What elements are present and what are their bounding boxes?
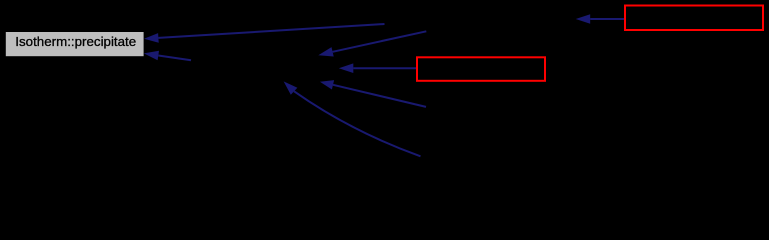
edge 7: horizontal arrow from top-right red box into upper-right node [576, 14, 625, 24]
edge 1: long arrow from upper-right node into Isotherm::precipitate [144, 24, 385, 43]
svg-text:Isotherm::precipitate: Isotherm::precipitate [15, 34, 136, 49]
edge 3: arrow from upper-right node down into middle node [318, 31, 426, 56]
node Isotherm::precipitate (current node, grey) [6, 32, 144, 56]
node: top-right red box (truncated node) [625, 6, 763, 31]
edge 5: arrow from lower-right node into middle node [320, 80, 426, 107]
node: middle red box (truncated node) [417, 57, 545, 81]
edge 2: short arrow from middle node into Isotherm::precipitate [144, 51, 191, 61]
edge 4: horizontal arrow from middle red box into middle node [339, 63, 416, 73]
edge 6: curved arrow from bottom node into middle node [284, 81, 421, 156]
